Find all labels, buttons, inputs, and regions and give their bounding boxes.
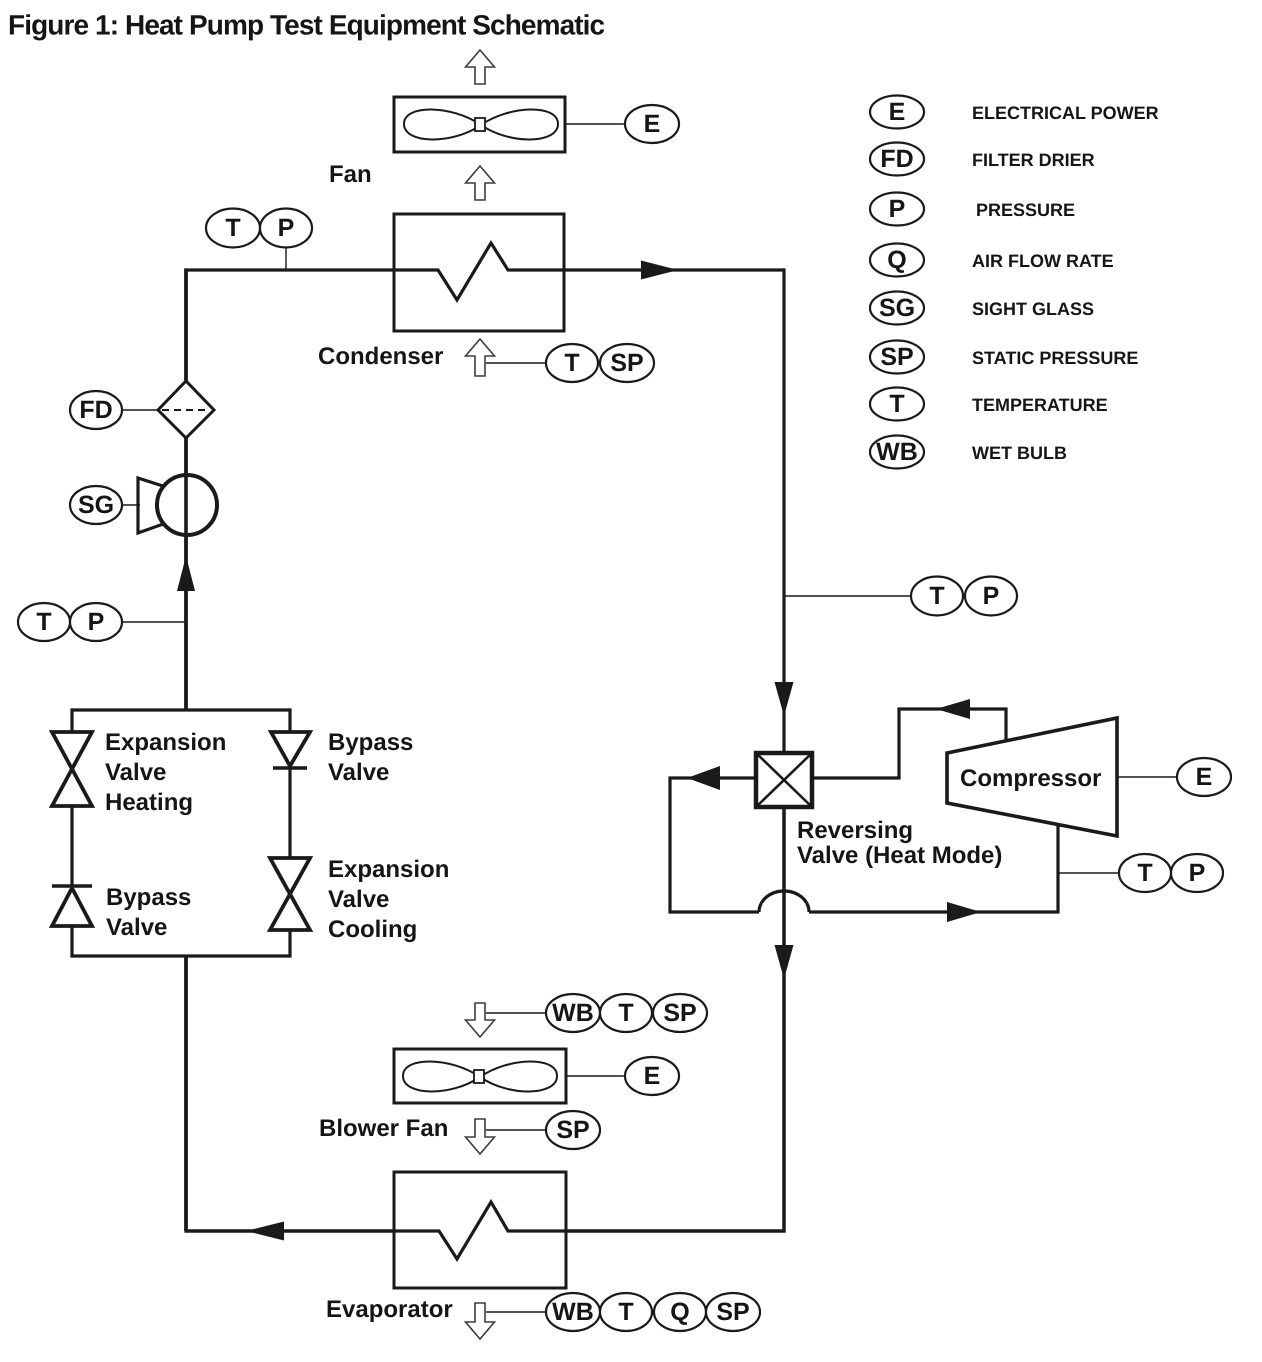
instrument T P (liquid line top): [206, 209, 260, 248]
svg-text:Condenser: Condenser: [318, 343, 443, 370]
fan F1 box: [394, 97, 565, 152]
svg-text:T: T: [618, 1298, 633, 1326]
legend SG: [870, 292, 924, 325]
instrument line to T SP (condenser air): [486, 362, 546, 364]
filter drier FD symbol: [158, 381, 214, 438]
air arrow above fan: [466, 50, 495, 84]
svg-text:SG: SG: [879, 294, 915, 322]
instrument SG oval: [70, 486, 122, 524]
arrow right on bottom loop: [947, 902, 981, 922]
svg-text:FD: FD: [880, 145, 913, 173]
arrow left on top loop: [936, 699, 970, 719]
expansion valve cooling: [270, 858, 310, 930]
instrument T (condenser air): [546, 344, 598, 382]
wire right vertical (reversing valve to bottom line): [782, 807, 786, 1231]
svg-text:SP: SP: [663, 999, 696, 1027]
svg-text:P: P: [889, 195, 906, 223]
svg-text:P: P: [278, 214, 295, 242]
instrument line blower E: [566, 1075, 625, 1077]
svg-text:T: T: [36, 608, 51, 636]
svg-text:T: T: [564, 349, 579, 377]
instrument line: [122, 621, 186, 623]
wire hump crossover: [759, 891, 809, 912]
reversing valve RV1: [756, 753, 812, 807]
instrument E (blower): [625, 1057, 679, 1095]
svg-text:SG: SG: [78, 491, 114, 519]
evaporator: [394, 1172, 566, 1288]
legend FD: [870, 143, 924, 176]
svg-text:T: T: [1137, 859, 1152, 887]
svg-text:P: P: [983, 582, 1000, 610]
bypass valve (top right): [271, 732, 310, 768]
blower propeller: [403, 1061, 557, 1091]
arrow down on right vertical: [775, 682, 794, 716]
instrument SP (condenser air): [600, 344, 654, 382]
svg-text:Fan: Fan: [329, 161, 372, 188]
svg-text:Expansion: Expansion: [105, 729, 226, 756]
svg-text:E: E: [644, 1062, 661, 1090]
arrow on top main line: [641, 261, 678, 280]
condenser C1: [394, 214, 564, 331]
instrument E (fan): [625, 105, 679, 143]
svg-text:SP: SP: [716, 1298, 749, 1326]
svg-text:SP: SP: [880, 343, 913, 371]
expansion valve heating: [52, 732, 92, 806]
instrument line right vertical T P: [784, 595, 911, 597]
valve network wires: [72, 708, 290, 1231]
svg-text:T: T: [929, 582, 944, 610]
wire bottom main line: [184, 1229, 785, 1232]
instrument line compressor E: [1117, 776, 1177, 778]
air arrow below fan: [466, 166, 495, 200]
legend WB: [870, 436, 924, 469]
svg-text:TEMPERATURE: TEMPERATURE: [972, 395, 1108, 415]
instrument FD oval: [70, 391, 122, 429]
arrow down above evaporator line: [775, 945, 794, 979]
wire top loop to compressor: [812, 709, 1006, 778]
arrow up on left vertical: [177, 556, 195, 591]
instrument line WB T SP (blower inlet): [486, 1012, 546, 1014]
svg-text:Q: Q: [887, 246, 906, 274]
instrument T P (liquid line left): [18, 603, 70, 641]
svg-text:Compressor: Compressor: [960, 765, 1101, 792]
svg-text:AIR FLOW RATE: AIR FLOW RATE: [972, 251, 1114, 271]
svg-text:E: E: [1196, 763, 1213, 791]
svg-text:E: E: [644, 110, 661, 138]
svg-text:WB: WB: [876, 438, 918, 466]
instrument T P (discharge): [1119, 854, 1171, 892]
svg-text:Valve: Valve: [328, 886, 389, 913]
legend E: [870, 96, 924, 129]
svg-text:P: P: [1189, 859, 1206, 887]
svg-text:Heating: Heating: [105, 789, 193, 816]
air arrow below blower (down): [466, 1119, 495, 1154]
svg-text:Figure 1: Heat Pump Test Equip: Figure 1: Heat Pump Test Equipment Schem…: [8, 10, 605, 41]
svg-text:WB: WB: [552, 999, 594, 1027]
legend P: [870, 193, 924, 226]
svg-text:Q: Q: [670, 1298, 689, 1326]
instrument line fan E: [565, 123, 625, 125]
svg-text:Evaporator: Evaporator: [326, 1296, 453, 1323]
svg-text:Valve: Valve: [328, 759, 389, 786]
svg-text:Blower Fan: Blower Fan: [319, 1115, 448, 1142]
instrument T P (suction): [911, 577, 963, 616]
legend Q: [870, 244, 924, 277]
instrument WB T SP: [546, 994, 600, 1032]
air arrow below evaporator (down): [466, 1303, 495, 1339]
wire top main line: [186, 268, 784, 271]
instrument line blower SP: [486, 1129, 546, 1131]
bypass valve (bottom left): [52, 886, 92, 926]
svg-text:PRESSURE: PRESSURE: [976, 200, 1075, 220]
legend: [870, 96, 1159, 469]
svg-text:Bypass: Bypass: [106, 884, 191, 911]
svg-text:Reversing: Reversing: [797, 817, 913, 844]
svg-text:Bypass: Bypass: [328, 729, 413, 756]
svg-text:WB: WB: [552, 1298, 594, 1326]
svg-text:T: T: [889, 390, 904, 418]
svg-text:STATIC PRESSURE: STATIC PRESSURE: [972, 348, 1138, 368]
arrow on bottom line (left): [246, 1222, 284, 1241]
svg-text:Valve (Heat Mode): Valve (Heat Mode): [797, 842, 1002, 869]
fan propeller: [404, 109, 558, 139]
svg-text:WET BULB: WET BULB: [972, 443, 1067, 463]
svg-text:E: E: [889, 98, 906, 126]
air arrow below condenser: [466, 339, 495, 376]
svg-text:T: T: [618, 999, 633, 1027]
instrument line compressor T P: [1058, 872, 1119, 874]
svg-text:FILTER DRIER: FILTER DRIER: [972, 150, 1095, 170]
wire left loop from reversing valve: [670, 778, 759, 912]
instrument line FD: [122, 409, 158, 411]
instrument WB T Q SP: [546, 1293, 600, 1331]
air arrow above blower fan (down): [466, 1003, 495, 1037]
svg-text:SIGHT GLASS: SIGHT GLASS: [972, 299, 1094, 319]
svg-text:SP: SP: [556, 1116, 589, 1144]
svg-text:FD: FD: [79, 396, 112, 424]
compressor: [947, 718, 1117, 836]
svg-text:Valve: Valve: [105, 759, 166, 786]
instrument stem: [285, 248, 287, 270]
legend SP: [870, 341, 924, 374]
wire bottom loop to compressor: [809, 824, 1058, 912]
svg-text:T: T: [225, 214, 240, 242]
wire left vertical: [184, 268, 188, 710]
blower fan box: [394, 1049, 566, 1103]
instrument line WB T Q SP (evaporator): [486, 1311, 546, 1313]
wire right vertical down to reversing valve: [782, 268, 785, 753]
instrument SP (blower outlet): [546, 1111, 600, 1149]
svg-text:SP: SP: [610, 349, 643, 377]
arrow left on left loop: [687, 766, 720, 790]
svg-text:Expansion: Expansion: [328, 856, 449, 883]
instrument E (compressor): [1177, 758, 1231, 796]
svg-text:Cooling: Cooling: [328, 916, 417, 943]
svg-text:Valve: Valve: [106, 914, 167, 941]
svg-text:ELECTRICAL POWER: ELECTRICAL POWER: [972, 103, 1159, 123]
legend T: [870, 388, 924, 421]
sight glass SG symbol: [138, 475, 217, 535]
svg-text:P: P: [88, 608, 105, 636]
instrument line SG: [122, 504, 140, 506]
